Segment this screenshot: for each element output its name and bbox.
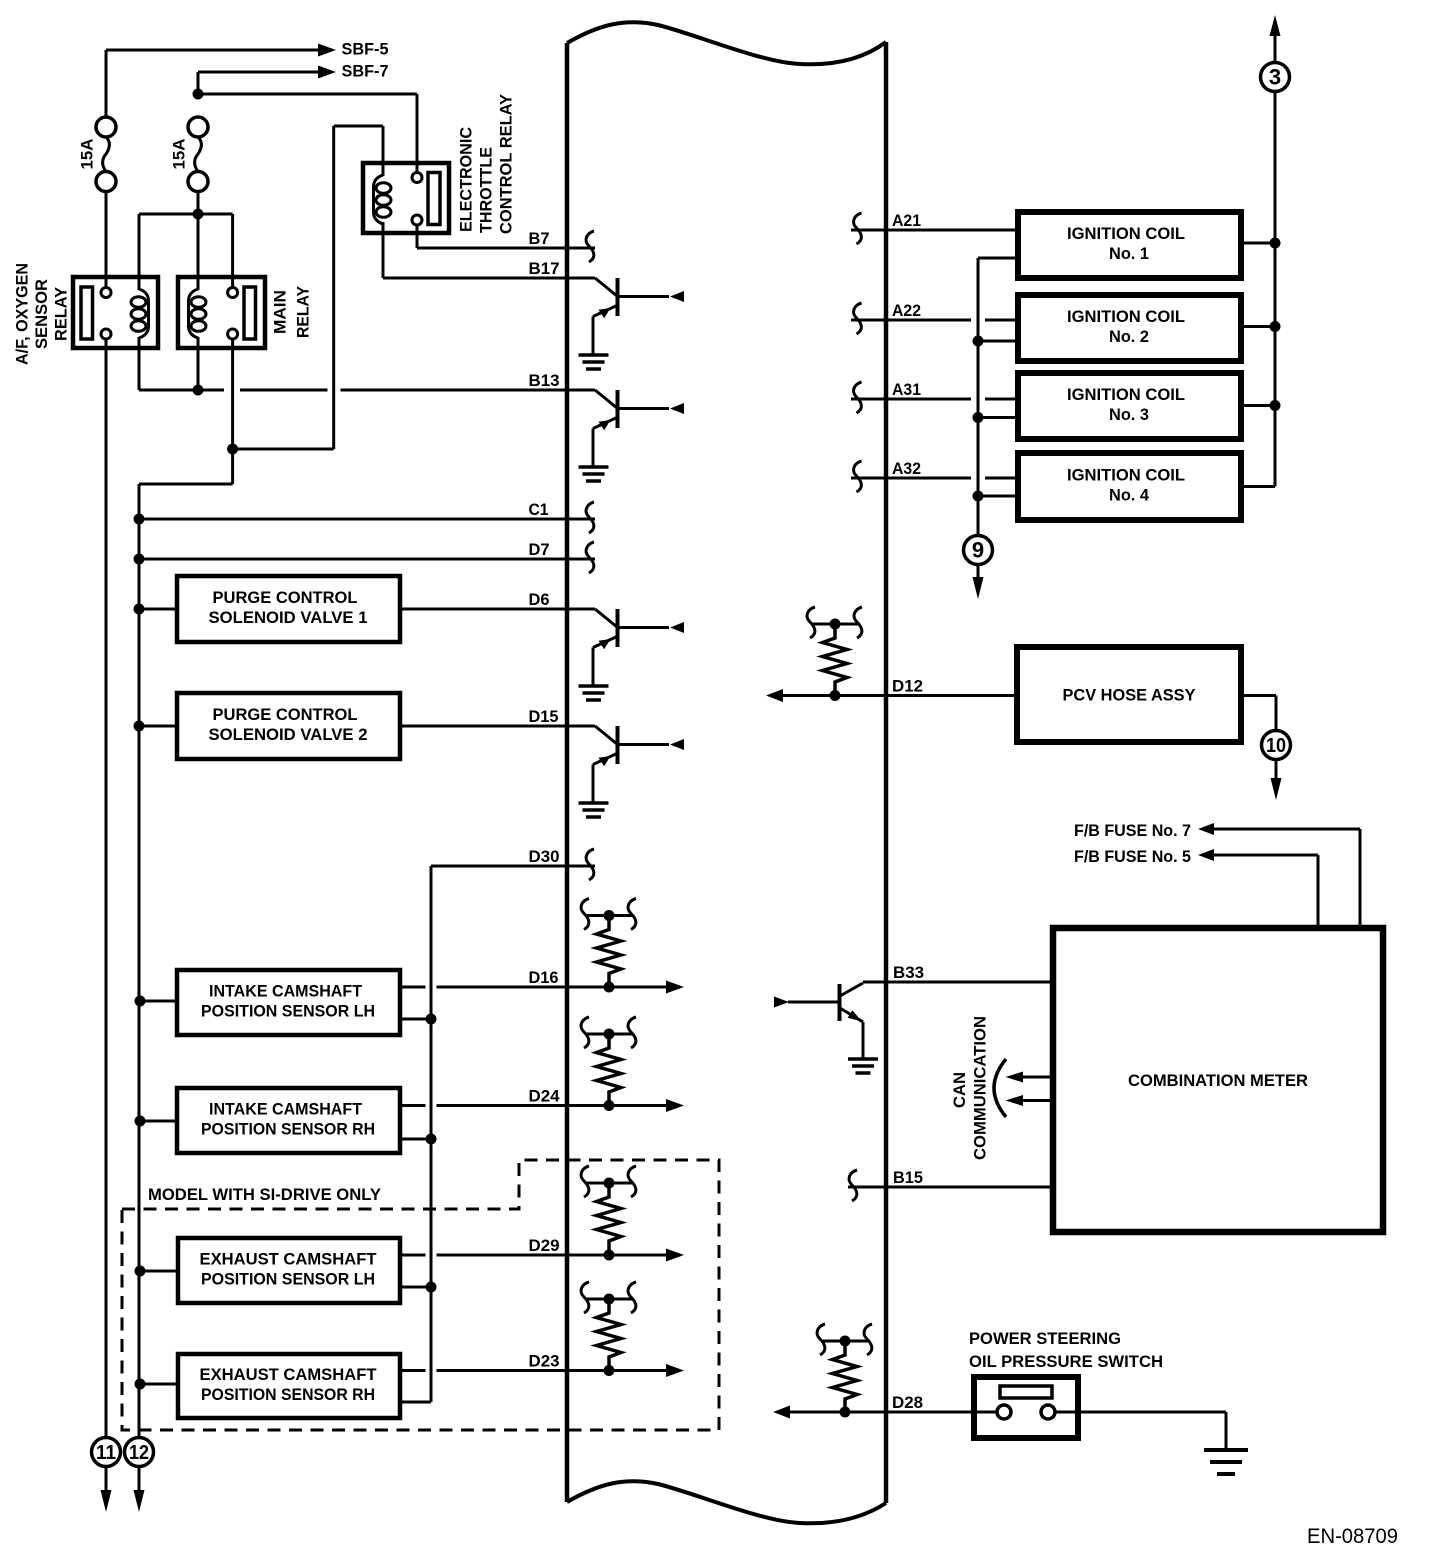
wire sensor LH to D30 bus (400, 1286, 431, 1289)
arrow D29 (666, 1249, 684, 1262)
svg-text:9: 9 (972, 538, 984, 563)
pin label A21 (892, 211, 921, 230)
ECM connector right edge (884, 42, 889, 1503)
svg-text:No. 3: No. 3 (1109, 405, 1149, 424)
connector squiggle A32 (854, 461, 862, 492)
junction (134, 514, 145, 525)
svg-text:F/B FUSE No. 5: F/B FUSE No. 5 (1074, 847, 1191, 866)
svg-text:SOLENOID VALVE 1: SOLENOID VALVE 1 (209, 608, 368, 627)
pin label D7 (529, 540, 550, 559)
connector squiggle A31 (854, 382, 862, 413)
resistor R4 (D23 pull-up) (581, 1282, 636, 1371)
ignition coil No.3 (1018, 373, 1241, 439)
svg-text:A32: A32 (892, 459, 921, 478)
junction (840, 1407, 851, 1418)
svg-text:A21: A21 (892, 211, 921, 230)
svg-text:15A: 15A (170, 139, 189, 170)
junction (604, 982, 615, 993)
wire power feed (1274, 36, 1277, 63)
svg-text:D6: D6 (529, 590, 550, 609)
junction (193, 209, 204, 220)
dashed group MODEL WITH SI-DRIVE ONLY (122, 1160, 719, 1430)
wire node B33 to meter (863, 981, 1053, 984)
svg-text:MAIN: MAIN (271, 290, 290, 334)
node 12 (ground reference) (125, 1438, 154, 1467)
svg-text:11: 11 (96, 1442, 116, 1464)
arrow to power node 3 (1270, 15, 1281, 36)
wire coil No.3 ground (978, 416, 1018, 419)
svg-text:No. 2: No. 2 (1109, 327, 1149, 346)
svg-text:INTAKE CAMSHAFT: INTAKE CAMSHAFT (209, 1100, 363, 1119)
label A/F, OXYGEN SENSOR RELAY (13, 263, 71, 365)
ground (power steering switch) (1204, 1450, 1248, 1474)
ignition coil No.4 (1018, 453, 1241, 520)
fuse F2 15A (188, 117, 208, 192)
resistor R1 (D16 pull-up) (581, 899, 636, 988)
pin label B7 (529, 229, 550, 248)
wire main relay contact to left supply bus (139, 449, 233, 1438)
pin label D12 (892, 677, 923, 696)
wire coil No.2 supply (1241, 325, 1275, 328)
wire ETC relay contact to pin B7 (417, 225, 595, 249)
svg-text:12: 12 (129, 1442, 149, 1464)
svg-text:D28: D28 (892, 1393, 923, 1412)
arrow below node 10 (1271, 760, 1282, 801)
wire sensor RH to D30 bus (400, 1401, 431, 1404)
node SBF-7 (342, 62, 389, 81)
arrow CAN high (1006, 1072, 1054, 1083)
svg-text:B33: B33 (893, 963, 924, 982)
pin label D16 (529, 968, 559, 987)
wire node A22 (851, 319, 1018, 322)
arrow D23 (666, 1364, 684, 1377)
wire A/F coil to node B13 (138, 348, 141, 390)
connector squiggle D7 (586, 542, 594, 573)
connector squiggle A22 (854, 303, 862, 334)
label MAIN RELAY (271, 285, 313, 338)
wire to electronic throttle control relay pin (198, 94, 417, 174)
wire node A21 (851, 229, 1018, 232)
svg-text:COMMUNICATION: COMMUNICATION (971, 1016, 990, 1160)
junction (973, 491, 984, 502)
pin label B13 (529, 371, 560, 390)
wire main relay contact to ETC relay coil (233, 126, 383, 449)
PCV hose assy (1017, 647, 1241, 742)
connector squiggle A21 (854, 213, 862, 244)
wire sensor LH to ground bus (140, 1270, 178, 1273)
transistor Q4 (D15 driver) (579, 726, 685, 817)
arrow from F/B FUSE No. 5 (1198, 849, 1214, 861)
arrow below node 11 (101, 1467, 112, 1512)
wire node A32 (851, 477, 1018, 480)
wire node D7 (139, 558, 595, 561)
pin label D6 (529, 590, 550, 609)
svg-text:MODEL WITH SI-DRIVE ONLY: MODEL WITH SI-DRIVE ONLY (148, 1185, 382, 1204)
svg-text:SBF-5: SBF-5 (342, 40, 389, 59)
pin label A32 (892, 459, 921, 478)
svg-text:INTAKE CAMSHAFT: INTAKE CAMSHAFT (209, 982, 363, 1001)
ignition coil No.2 (1018, 295, 1241, 361)
wire relay coil/contact distribution (139, 214, 233, 288)
svg-text:D16: D16 (529, 968, 559, 987)
junction (193, 89, 204, 100)
arrow below node 12 (134, 1467, 145, 1512)
pin label A22 (892, 301, 921, 320)
wire coil No.2 ground (978, 340, 1018, 343)
transistor Q5 (B33 driver) (774, 983, 878, 1073)
wire node D24 (400, 1104, 666, 1107)
ECM connector torn bottom edge (567, 1481, 886, 1523)
svg-text:PURGE CONTROL: PURGE CONTROL (213, 705, 358, 724)
wire supply to purge valve 1 (139, 608, 177, 611)
wire node D29 (400, 1254, 666, 1257)
junction (135, 1266, 146, 1277)
exhaust camshaft position sensor LH (178, 1238, 400, 1303)
wire node C1 (139, 518, 595, 521)
svg-text:IGNITION COIL: IGNITION COIL (1067, 385, 1185, 404)
wire to SBF-5 (106, 50, 319, 118)
svg-text:D30: D30 (529, 847, 560, 866)
svg-text:B13: B13 (529, 371, 560, 390)
pin label B33 (893, 963, 924, 982)
node F/B FUSE No. 5 (1074, 847, 1191, 866)
svg-text:10: 10 (1266, 735, 1286, 757)
power steering oil pressure switch (974, 1377, 1078, 1438)
svg-text:POWER STEERING: POWER STEERING (969, 1329, 1121, 1348)
svg-text:ELECTRONIC: ELECTRONIC (457, 127, 476, 232)
drawing number EN-08709 (1307, 1525, 1398, 1548)
wire purge valve 2 to pin D15 (400, 725, 595, 728)
pin label B15 (893, 1168, 923, 1187)
junction (135, 1116, 146, 1127)
wire sensor LH to ground bus (140, 1000, 177, 1003)
pin label B17 (529, 259, 560, 278)
transistor Q2 (B13 driver) (579, 390, 685, 481)
svg-text:COMBINATION METER: COMBINATION METER (1128, 1071, 1308, 1090)
svg-text:No. 4: No. 4 (1109, 486, 1150, 505)
wire coil No.4 ground (978, 495, 1018, 498)
svg-text:A31: A31 (892, 380, 921, 399)
svg-text:D7: D7 (529, 540, 550, 559)
wire to SBF-7 (198, 72, 319, 94)
purge control solenoid valve 2 (177, 693, 400, 759)
wire sensor RH to ground bus (140, 1383, 178, 1386)
wire sensor RH to D30 bus (400, 1138, 431, 1141)
svg-text:D23: D23 (529, 1352, 560, 1371)
pin label A31 (892, 380, 921, 399)
svg-text:POSITION SENSOR LH: POSITION SENSOR LH (201, 1002, 375, 1021)
resistor R2 (D24 pull-up) (581, 1017, 636, 1106)
pin label D24 (529, 1087, 561, 1106)
svg-text:B7: B7 (529, 229, 550, 248)
pin label D23 (529, 1352, 560, 1371)
arrow D12 (766, 689, 783, 702)
junction (134, 554, 145, 565)
svg-text:D12: D12 (892, 677, 923, 696)
junction (973, 412, 984, 423)
svg-text:D24: D24 (529, 1087, 561, 1106)
svg-text:D29: D29 (529, 1236, 560, 1255)
node F/B FUSE No. 7 (1074, 821, 1191, 840)
svg-text:CONTROL RELAY: CONTROL RELAY (497, 93, 516, 234)
arrow D16 (666, 981, 684, 994)
connector squiggle B7 (586, 231, 594, 262)
resistor R5 (D12 pull-up) (807, 607, 862, 696)
svg-text:EXHAUST CAMSHAFT: EXHAUST CAMSHAFT (200, 1250, 378, 1269)
svg-text:A22: A22 (892, 301, 921, 320)
node 10 (1262, 731, 1291, 760)
label POWER STEERING OIL PRESSURE SWITCH (969, 1329, 1163, 1371)
wire fuse F1 to A/F relay (105, 192, 108, 289)
label ELECTRONIC THROTTLE CONTROL RELAY (457, 93, 516, 234)
junction (135, 1379, 146, 1390)
ignition coil No.1 (1018, 212, 1241, 278)
intake camshaft position sensor LH (177, 970, 400, 1035)
wire main relay contact down (231, 339, 234, 450)
ECM connector left edge (565, 43, 570, 1502)
pin label C1 (529, 500, 549, 519)
wire F/B fuse No.5 to meter (1214, 855, 1318, 928)
exhaust camshaft position sensor RH (178, 1354, 400, 1418)
wire PCV to node 10 (1241, 696, 1276, 731)
wire main relay coil to node B13 (197, 348, 200, 385)
svg-text:F/B FUSE No. 7: F/B FUSE No. 7 (1074, 821, 1191, 840)
relay K1 A/F oxygen sensor relay (73, 277, 158, 348)
wire ETC relay coil to pin B17 (383, 233, 595, 278)
junction (1270, 238, 1281, 249)
value label 15A (170, 139, 189, 170)
svg-text:IGNITION COIL: IGNITION COIL (1067, 466, 1185, 485)
wire F/B fuse No.7 to meter (1214, 829, 1360, 928)
arrow D28 (773, 1406, 790, 1419)
junction (830, 690, 841, 701)
pin label D15 (529, 707, 559, 726)
value label 15A (78, 139, 97, 170)
svg-text:THROTTLE: THROTTLE (477, 147, 496, 233)
pin label D30 (529, 847, 560, 866)
svg-text:3: 3 (1269, 65, 1281, 90)
svg-text:RELAY: RELAY (294, 285, 313, 338)
svg-text:POSITION SENSOR LH: POSITION SENSOR LH (201, 1270, 375, 1289)
junction (604, 1365, 615, 1376)
svg-text:POSITION SENSOR RH: POSITION SENSOR RH (201, 1120, 375, 1139)
node SBF-5 (342, 40, 389, 59)
svg-text:POSITION SENSOR RH: POSITION SENSOR RH (201, 1385, 375, 1404)
svg-text:CAN: CAN (950, 1072, 969, 1108)
wire A/F relay contact to ground node 11 bus (105, 339, 108, 1438)
fuse F1 15A (96, 117, 116, 192)
wire switch to ground (1055, 1412, 1227, 1450)
wire node D23 (400, 1369, 666, 1372)
junction (227, 444, 238, 455)
wire coil No.1 supply (1241, 242, 1275, 245)
svg-text:B17: B17 (529, 259, 560, 278)
arrow CAN low (1006, 1095, 1054, 1106)
junction (973, 336, 984, 347)
svg-text:SENSOR: SENSOR (32, 279, 51, 349)
wire supply to purge valve 2 (139, 725, 177, 728)
svg-text:RELAY: RELAY (52, 286, 71, 341)
junction (134, 721, 145, 732)
node 9 (ignition ground) (964, 536, 993, 565)
junction (604, 1250, 615, 1261)
svg-text:A/F, OXYGEN: A/F, OXYGEN (13, 263, 32, 365)
transistor Q1 (B17 driver) (579, 278, 685, 369)
purge control solenoid valve 1 (177, 576, 400, 642)
svg-text:EN-08709: EN-08709 (1307, 1525, 1398, 1548)
node 11 (ground reference) (92, 1438, 121, 1467)
wire node D16 (400, 986, 666, 989)
svg-text:15A: 15A (78, 139, 97, 170)
intake camshaft position sensor RH (177, 1088, 400, 1153)
pin label D29 (529, 1236, 560, 1255)
arrow SBF-5 (318, 44, 336, 57)
wire fuse F2 to main relay coil (197, 192, 200, 278)
wire sensor LH to D30 bus (400, 1018, 431, 1021)
connector squiggle B15 (849, 1170, 857, 1201)
svg-text:SBF-7: SBF-7 (342, 62, 389, 81)
pin label D28 (892, 1393, 923, 1412)
junction (135, 996, 146, 1007)
svg-text:C1: C1 (529, 500, 549, 519)
combination meter (1053, 928, 1383, 1232)
svg-text:EXHAUST CAMSHAFT: EXHAUST CAMSHAFT (200, 1365, 378, 1384)
junction (426, 1134, 437, 1145)
wire node D30 (431, 866, 595, 1402)
label MODEL WITH SI-DRIVE ONLY (148, 1185, 382, 1204)
CAN bus arc (994, 1059, 1006, 1117)
wire node B15 to meter (848, 1186, 1053, 1189)
junction (1270, 400, 1281, 411)
node 3 (power feed) (1261, 63, 1290, 92)
wire node B13 to ECM (139, 389, 595, 392)
arrow from F/B FUSE No. 7 (1198, 823, 1214, 835)
wire ignition coil ground bus (978, 258, 1018, 536)
svg-text:IGNITION COIL: IGNITION COIL (1067, 307, 1185, 326)
resistor R6 (D28 pull-up) (817, 1324, 872, 1413)
connector squiggle D30 (586, 849, 594, 880)
ECM connector torn top edge (567, 22, 886, 64)
wire node A31 (851, 398, 1018, 401)
svg-text:PCV HOSE ASSY: PCV HOSE ASSY (1063, 686, 1197, 705)
junction (193, 385, 204, 396)
transistor Q3 (D6 driver) (579, 609, 685, 700)
junction (1270, 321, 1281, 332)
resistor R3 (D29 pull-up) (581, 1166, 636, 1255)
wire node D12 (782, 694, 1017, 697)
relay K3 electronic throttle control relay (363, 163, 449, 233)
junction (426, 1282, 437, 1293)
arrow below node 9 (973, 565, 984, 600)
svg-text:B15: B15 (893, 1168, 923, 1187)
wire ignition coil supply bus (1241, 92, 1275, 487)
wire coil No.3 supply (1241, 404, 1275, 407)
svg-text:SOLENOID VALVE 2: SOLENOID VALVE 2 (209, 725, 368, 744)
label CAN COMMUNICATION (950, 1016, 990, 1160)
junction (604, 1100, 615, 1111)
wire sensor RH to ground bus (140, 1120, 177, 1123)
junction (134, 604, 145, 615)
wire node D28 (789, 1411, 998, 1414)
svg-text:IGNITION COIL: IGNITION COIL (1067, 224, 1185, 243)
arrow D24 (666, 1099, 684, 1112)
svg-text:PURGE CONTROL: PURGE CONTROL (213, 588, 358, 607)
connector squiggle C1 (586, 502, 594, 533)
relay K2 main relay (178, 277, 265, 348)
svg-text:OIL PRESSURE SWITCH: OIL PRESSURE SWITCH (969, 1352, 1163, 1371)
svg-text:D15: D15 (529, 707, 559, 726)
junction (426, 1014, 437, 1025)
svg-text:No. 1: No. 1 (1109, 244, 1149, 263)
arrow SBF-7 (318, 66, 336, 79)
wire purge valve 1 to pin D6 (400, 608, 595, 611)
